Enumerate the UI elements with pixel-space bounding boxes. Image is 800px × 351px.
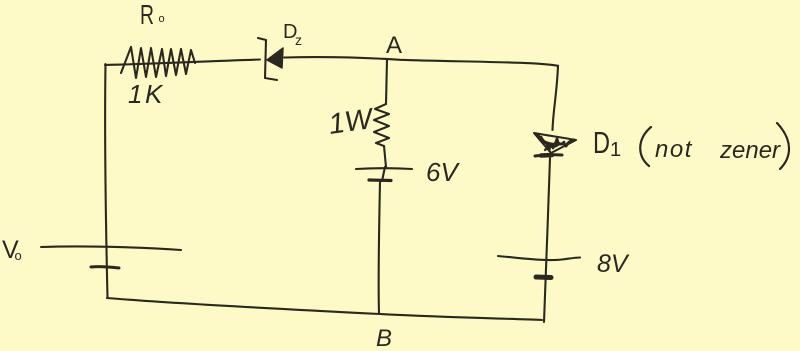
svg-text:z: z — [295, 32, 302, 48]
svg-text:R: R — [140, 0, 154, 30]
svg-text:6V: 6V — [426, 157, 460, 187]
svg-text:B: B — [376, 325, 392, 351]
svg-text:1: 1 — [610, 139, 621, 161]
svg-text:A: A — [386, 32, 402, 59]
svg-text:zener: zener — [719, 137, 781, 164]
svg-text:1W: 1W — [327, 103, 377, 141]
svg-text:o: o — [15, 248, 22, 263]
svg-text:8V: 8V — [597, 250, 630, 278]
svg-text:not: not — [655, 136, 693, 163]
svg-text:o: o — [159, 13, 165, 25]
svg-text:1K: 1K — [128, 79, 165, 109]
svg-text:D: D — [593, 125, 610, 160]
